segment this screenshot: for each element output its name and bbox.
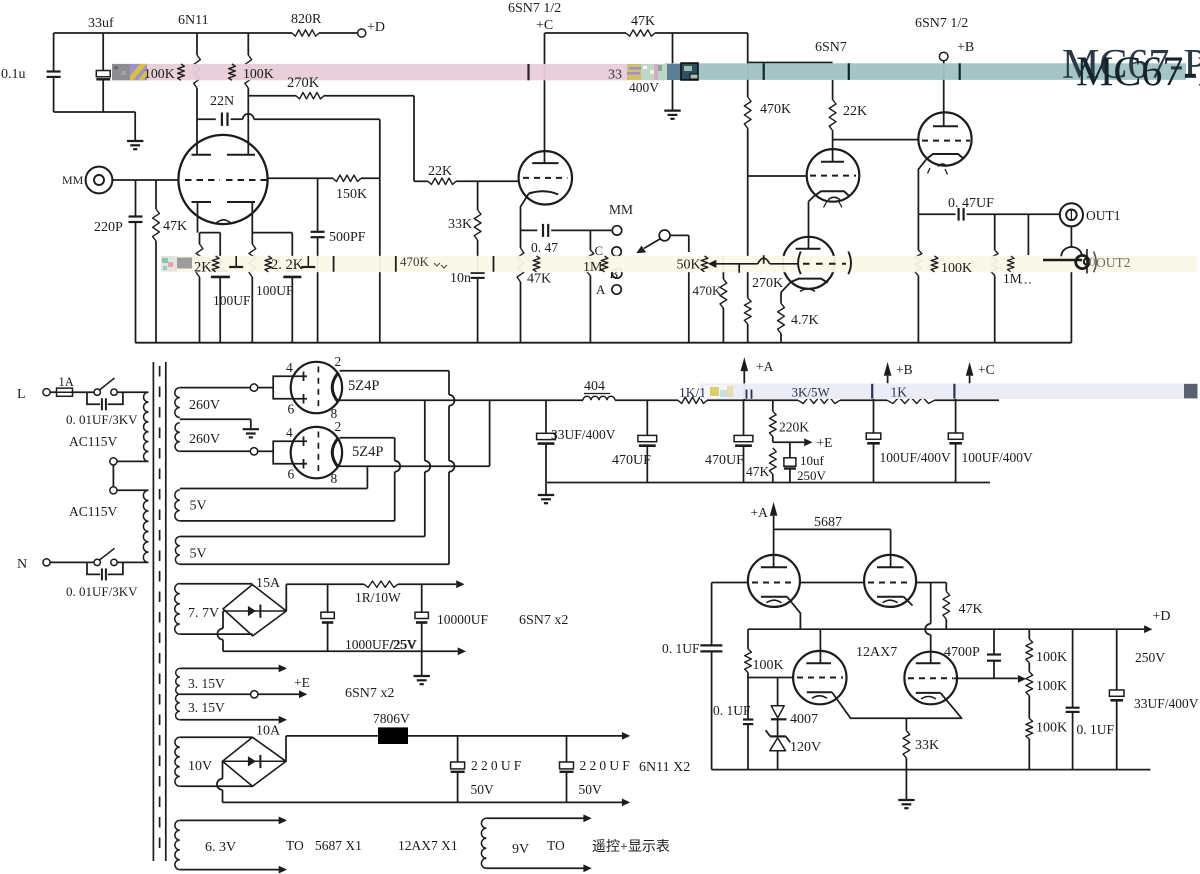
glitch shifted zigzag 2.2K: [265, 256, 272, 272]
switch rotor arrowhead: [636, 246, 646, 254]
svg-text:+A: +A: [751, 505, 769, 520]
terminal 6N11 heater plus arrow: [622, 732, 630, 740]
svg-text:15A: 15A: [256, 576, 281, 591]
wire 22N cap to hop: [231, 118, 243, 120]
wire pin8-2 up to B+ line: [489, 400, 491, 466]
terminal N: [43, 559, 50, 566]
svg-text:/25V: /25V: [390, 637, 417, 652]
svg-text:遥控+显示表: 遥控+显示表: [592, 839, 670, 855]
capacitor 22N: [221, 113, 223, 126]
V7 plate: [877, 566, 904, 568]
svg-text:2: 2: [335, 419, 342, 434]
wire cathode to 0.47UF cap: [918, 213, 955, 215]
svg-text:4700P: 4700P: [944, 645, 980, 660]
wire 5687 plate rail: [774, 528, 891, 530]
resistor 47K plate body: [626, 30, 655, 36]
svg-text:0.1u: 0.1u: [1, 67, 26, 82]
V1 heater arc: [216, 220, 232, 224]
svg-text:470UF: 470UF: [705, 453, 744, 468]
wire 500PF to ground rail: [317, 237, 319, 343]
wire +A stem lower: [773, 516, 775, 530]
svg-text:10V: 10V: [188, 759, 212, 774]
svg-text:100K: 100K: [753, 658, 784, 673]
glitch wire V3 grid line right part: [770, 263, 798, 265]
resistor 1K body: [887, 397, 935, 403]
V5 plate: [933, 125, 958, 127]
svg-text:3. 15V: 3. 15V: [188, 676, 225, 691]
wire cap to ground: [672, 75, 674, 110]
wire bridge 10A minus output with hop: [222, 761, 224, 779]
wire tap to primary 2: [117, 489, 149, 491]
wire tap link: [112, 465, 114, 487]
svg-text:50V: 50V: [471, 782, 495, 797]
svg-text:5V: 5V: [190, 499, 207, 514]
wire V7 grid node down to 12AX7-2 plate with hop: [930, 583, 932, 624]
V8 heater arc: [812, 696, 827, 699]
resistor 47K cathode follower: [517, 248, 524, 282]
connector MM input outer: [86, 167, 113, 194]
V6 heater arc: [767, 600, 782, 603]
glitch gray block left of pink band: [112, 64, 131, 80]
wire 150K to x380 vertical: [361, 177, 380, 179]
wire V1 right cathode lead: [251, 202, 253, 233]
svg-text:3. 15V: 3. 15V: [188, 700, 225, 715]
wire +C rail: [545, 32, 627, 34]
resistor 470K grid leak V3: [722, 256, 724, 279]
svg-text:470K: 470K: [760, 102, 791, 117]
svg-text:470UF: 470UF: [612, 453, 651, 468]
capacitor 470UF 1: [646, 400, 648, 435]
svg-text:100UF: 100UF: [213, 293, 251, 308]
wire cathode to 100UF cap2: [252, 232, 292, 234]
transformer secondary 7.7V: [175, 584, 180, 635]
rectifier U1 5Z4P envelope: [291, 362, 342, 413]
glitch shifted wire tick +B in teal band: [959, 63, 961, 80]
capacitor 10uf/250V: [789, 442, 791, 458]
glitch wire hop on V3 grid line: [758, 258, 770, 264]
terminal +B: [939, 52, 948, 61]
svg-text:7806V: 7806V: [373, 711, 410, 726]
capacitor 100UF/400V 2: [955, 399, 957, 433]
capacitor 33UF/400V filter: [545, 400, 547, 433]
wire hop x449 over pin8-2 line: [449, 461, 455, 472]
U1 pin 4 stub: [290, 375, 308, 377]
OUT1 center pin: [1070, 210, 1072, 221]
wire V5 cathode lead: [918, 159, 927, 215]
svg-text:6SN7 1/2: 6SN7 1/2: [915, 16, 968, 31]
switch N contact 1: [94, 559, 100, 565]
wire +E branch: [773, 441, 804, 443]
wire 5V-1 top line: [180, 488, 368, 490]
svg-text:0. 01UF/3KV: 0. 01UF/3KV: [66, 412, 138, 427]
wire center tap to arrow: [258, 693, 299, 695]
wire fuse to switch L: [73, 391, 95, 393]
svg-text:5V: 5V: [190, 547, 207, 562]
svg-text:5Z4P: 5Z4P: [352, 444, 383, 460]
wire 47K corner down x747.7: [747, 33, 749, 63]
resistor 33K tail: [905, 718, 907, 730]
terminal +A arrow: [741, 357, 749, 371]
resistor 100K (12AX7 grid feed): [747, 629, 749, 649]
glitch noise cluster at band junction: [627, 64, 641, 80]
triode V4 6SN7c envelope: [807, 149, 860, 202]
V5 heater pins: [928, 168, 931, 174]
glitch shifted tick x477: [493, 256, 495, 272]
glitch shifted tick x380: [395, 256, 397, 272]
ground 33K tail: [905, 770, 907, 799]
resistor 47K input load: [155, 180, 157, 209]
wire 6.3V top: [180, 819, 279, 821]
wire x449 vertical with hops: [448, 371, 450, 395]
wire rail to 33uf cap: [102, 33, 104, 71]
wire +C down to V2 plate: [544, 33, 546, 163]
svg-text:1K: 1K: [891, 385, 908, 400]
wire hop x424.8: [425, 461, 431, 472]
wire +D rail to V8 plate: [819, 629, 821, 663]
terminal +E center tap: [251, 691, 258, 698]
svg-text:A: A: [596, 282, 606, 297]
U2 filament bold arc: [332, 438, 338, 468]
svg-text:10A: 10A: [256, 724, 281, 739]
connector OUT1 outer: [1060, 203, 1083, 226]
glitch shifted zigzag 2K: [212, 256, 219, 272]
V9 plate: [916, 662, 941, 664]
svg-text:0. 47: 0. 47: [531, 240, 558, 255]
resistor 100K left (V1 plate load): [196, 33, 198, 55]
capacitor 470UF 2: [743, 400, 745, 435]
svg-text:22N: 22N: [210, 94, 234, 109]
zener diode 120V: [770, 735, 786, 737]
wire 260V-1 to rectifier 1: [180, 387, 251, 389]
svg-text:6SN7: 6SN7: [815, 40, 847, 55]
V9 heater arc: [921, 697, 936, 700]
svg-text:250V: 250V: [797, 468, 827, 483]
capacitor 4700P: [993, 629, 995, 654]
wire 270K to corner: [324, 95, 414, 97]
wire choke to 1K/10W: [615, 399, 678, 401]
triode V3 6SN7b envelope: [783, 237, 835, 289]
switch rotor arm: [644, 239, 660, 249]
terminal 6.3V top arrow: [279, 817, 287, 825]
resistor 22K body: [428, 178, 456, 184]
wire V1 output to 150K: [268, 177, 333, 179]
svg-text:TO: TO: [286, 838, 304, 853]
wire 7806 output bus: [408, 735, 622, 737]
svg-text:260V: 260V: [189, 432, 220, 447]
switch L contact 1: [94, 389, 100, 395]
capacitor 500PF: [311, 231, 325, 233]
glitch noise cluster yellow band left: [161, 256, 177, 272]
wire 22K to V2 grid: [456, 180, 519, 182]
diode inside bridge 10A: [248, 756, 256, 766]
capacitor 220UF/50V 1: [457, 736, 459, 762]
V8 plate: [806, 662, 831, 664]
wire cathode to 100UF cap1: [200, 232, 221, 234]
svg-text:1M: 1M: [1003, 271, 1022, 286]
svg-text:12AX7 X1: 12AX7 X1: [398, 838, 458, 853]
triode V8 12AX7a envelope: [793, 651, 846, 704]
inductor 404 choke: [583, 396, 615, 400]
wire node at 248.3,95.7 to 270K: [248, 95, 296, 97]
glitch gray block yellow band: [177, 258, 192, 269]
svg-text:1R/10W: 1R/10W: [355, 590, 401, 605]
wire V2 cathode lead: [521, 194, 529, 231]
transformer primary winding 1: [144, 392, 149, 461]
wire 1K to end: [935, 399, 1000, 401]
wire +A stem: [743, 371, 745, 400]
terminal +D: [358, 29, 366, 37]
resistor 22K (V4 plate feed): [832, 80, 834, 100]
transformer secondary 260V-2: [175, 423, 180, 452]
svg-text:+B: +B: [896, 362, 913, 377]
switch L blade: [100, 378, 115, 390]
glitch V3 envelope arc right: [848, 252, 851, 275]
svg-text:+D: +D: [367, 20, 385, 35]
wire 6N11 heater minus bus: [223, 801, 623, 803]
svg-text:+C: +C: [536, 18, 553, 33]
wire 4007 to zener: [777, 719, 779, 735]
rectifier U2 5Z4P envelope: [291, 427, 342, 478]
svg-text:0. 1UF: 0. 1UF: [713, 703, 751, 718]
transformer secondary 6.3V: [175, 820, 180, 869]
wire bridge 15A minus output with hop: [222, 611, 224, 629]
svg-text:100UF/400V: 100UF/400V: [962, 450, 1034, 465]
wire terminal to pin box 1: [258, 387, 274, 389]
V6 cathode: [761, 596, 787, 598]
ground center tap: [243, 428, 259, 430]
terminal tap 2: [110, 487, 117, 494]
resistor 33K: [477, 181, 479, 210]
svg-text:5687: 5687: [814, 515, 842, 530]
resistor 100K right (V1 plate load): [247, 33, 249, 55]
wire to V4 grid: [748, 175, 807, 177]
svg-text:6SN7 x2: 6SN7 x2: [519, 613, 568, 628]
capacitor 10n: [471, 272, 485, 274]
wire OUT1 to OUT2: [1070, 226, 1072, 246]
svg-text:47K: 47K: [631, 14, 655, 29]
wire primary tap upper: [117, 460, 149, 462]
wire 7.7V bottom to bridge: [180, 633, 253, 635]
svg-text:250V: 250V: [1135, 650, 1165, 665]
svg-text:1A: 1A: [59, 375, 74, 389]
wire hop x449 over B+ line: [449, 395, 455, 406]
svg-text:AC115V: AC115V: [69, 434, 118, 449]
wire 820R to +D terminal: [319, 32, 358, 34]
svg-text:150K: 150K: [336, 187, 367, 202]
wire bottom bus lower section: [712, 769, 1151, 771]
svg-text:L: L: [17, 387, 26, 402]
svg-text:50V: 50V: [579, 782, 603, 797]
switch rotor contact: [659, 230, 670, 241]
wire bridge 15A plus output: [285, 584, 287, 611]
V6 plate: [761, 566, 787, 568]
wire long vertical x380 to ground rail: [379, 119, 381, 343]
transformer secondary 10V: [175, 737, 180, 786]
svg-text:6SN7 x2: 6SN7 x2: [345, 686, 394, 701]
wire switch N to primary: [117, 561, 148, 563]
wire 0.1u cap to bottom: [53, 77, 55, 112]
wire U1 pin8 / B+ output line: [340, 399, 584, 401]
svg-text:10n: 10n: [450, 271, 471, 286]
transformer secondary 3.15V-1: [176, 668, 180, 694]
wire +B stem upper: [887, 376, 889, 384]
glitch shifted zigzag 50K: [701, 256, 708, 272]
terminal 6N11 heater minus arrow: [622, 799, 630, 807]
svg-text:50K: 50K: [677, 258, 701, 273]
resistor chain 100K x3: [1028, 629, 1030, 639]
glitch shifted cap top 1: [235, 256, 237, 267]
glitch shifted cap top 2: [307, 256, 309, 267]
capacitor 0.1UF grid: [743, 718, 753, 720]
fuse 1A: [57, 388, 73, 396]
V7 grid dashed: [868, 582, 912, 584]
svg-text:33: 33: [608, 68, 622, 83]
svg-text:47K: 47K: [163, 219, 187, 234]
svg-text:6. 3V: 6. 3V: [205, 840, 236, 855]
terminal +E arrow: [804, 438, 812, 446]
triode V2 6SN7a envelope: [519, 151, 572, 204]
capacitor 100UF cathode bypass 1: [219, 233, 221, 271]
resistor 1K/10W body: [678, 397, 707, 403]
svg-text:100UF: 100UF: [256, 283, 294, 298]
connector OUT1 inner: [1066, 210, 1077, 221]
wire zener to bottom bus: [777, 751, 779, 770]
terminal heater plus arrow: [456, 580, 464, 588]
pink highlight band: [112, 64, 666, 80]
wire cathode to 0.47 cap: [521, 229, 538, 231]
diode inside bridge 15A: [248, 606, 256, 616]
contact A: [612, 285, 621, 294]
U1 pin 6 stub: [290, 398, 308, 400]
glitch shifted tick +C stem: [953, 384, 955, 399]
U2 pin 6 stub: [290, 463, 308, 465]
svg-text:220P: 220P: [94, 220, 123, 235]
V3 cathode: [791, 279, 828, 283]
triode V5 6SN7d envelope: [918, 112, 971, 165]
wire common cathode tail: [832, 692, 962, 718]
wire +D rail left segment: [54, 32, 292, 34]
wire 3.15V bottom: [180, 719, 279, 721]
capacitor 220UF/50V 2: [566, 736, 568, 762]
wire rotor down (50K top): [688, 235, 690, 252]
svg-text:6N11 X2: 6N11 X2: [639, 760, 690, 775]
wire V1 left cathode lead: [197, 202, 199, 233]
capacitor 220P: [129, 215, 143, 217]
transformer core line right: [165, 362, 167, 861]
V3 heater arc: [800, 289, 815, 292]
svg-text:500PF: 500PF: [329, 230, 366, 245]
V7 heater arc: [883, 600, 898, 603]
bridge 15A internal line: [223, 610, 286, 612]
capacitor 0.47: [542, 224, 544, 237]
svg-text:8: 8: [331, 471, 338, 486]
switch N blade: [100, 548, 115, 560]
wire rail to 33uf/400V cap: [672, 33, 674, 64]
terminal L: [43, 389, 50, 396]
V7 cathode: [877, 596, 904, 598]
U2 dashed filament line: [317, 432, 319, 475]
V1 left grid dashed: [185, 179, 220, 181]
terminal 9V bottom arrow: [583, 864, 591, 872]
lavender highlight band: [700, 383, 1184, 399]
glitch shifted zigzag 1M output: [1007, 256, 1014, 272]
wire 6.3V bottom: [180, 869, 279, 871]
svg-text:C: C: [595, 243, 604, 258]
contact MM: [612, 226, 621, 235]
glitch shifted tick x317: [333, 256, 335, 272]
svg-text:+A: +A: [756, 359, 774, 374]
wire x394.7 vertical (5V-1 bottom): [394, 438, 396, 461]
connector MM input inner: [94, 175, 104, 185]
wire V9 grid output: [954, 677, 1018, 679]
wire 260V-2 to rectifier 2: [180, 450, 251, 452]
wire grid rail V6 to V7: [800, 582, 864, 584]
capacitor 0.1UF input: [711, 583, 713, 646]
svg-text:2: 2: [335, 354, 342, 369]
svg-text:0. 47UF: 0. 47UF: [948, 196, 994, 211]
wire 1K/10W to 3K/5W: [707, 399, 798, 401]
wire 220P to ground rail: [135, 222, 137, 343]
svg-text:47K: 47K: [746, 464, 770, 479]
wire B+ filter ground bus: [547, 482, 990, 484]
resistor 1M divider: [589, 230, 591, 250]
wire center tap to ground: [180, 418, 251, 420]
wire 1R/10W to arrow: [398, 583, 456, 585]
V4 plate: [821, 161, 844, 163]
wire 7.7V top to bridge apex: [180, 583, 253, 585]
V5 grid dashed: [922, 140, 970, 142]
glitch V3 envelope arc left: [798, 252, 801, 275]
terminal rectifier 2 plate: [250, 448, 257, 455]
U1 filament bold arc: [332, 373, 338, 403]
label 404 underline: [584, 393, 610, 395]
V5 heater arc: [938, 164, 947, 166]
glitch shifted resistor zigzag pink 2: [229, 64, 236, 80]
contact B: [612, 268, 622, 278]
capacitor 0.01UF/3KV across switch L: [87, 392, 100, 404]
svg-text:220K: 220K: [779, 420, 809, 435]
capacitor 10000UF: [421, 584, 423, 612]
wire OUT2 to ground rail: [1070, 272, 1072, 343]
svg-text:+C: +C: [978, 362, 995, 377]
wire input to 220P cap: [135, 180, 137, 217]
dark slate square at lavender band end: [1184, 384, 1198, 399]
svg-text:10uf: 10uf: [800, 453, 825, 468]
svg-text:2K: 2K: [194, 260, 212, 276]
svg-text:+B: +B: [957, 40, 974, 55]
V8 grid dashed: [797, 677, 843, 679]
wire U2 pin2 line: [340, 437, 395, 439]
wire 47K to corner: [655, 32, 748, 34]
svg-text:470K: 470K: [693, 283, 723, 298]
glitch wire V3 grid line left part: [716, 263, 757, 265]
wire bottom of input filter: [54, 111, 136, 113]
svg-text:3K/5W: 3K/5W: [792, 385, 831, 400]
V2 plate: [532, 162, 558, 164]
transformer secondary 3.15V-2: [176, 694, 180, 720]
svg-text:OUT2: OUT2: [1096, 255, 1131, 270]
glitch shifted zigzag 100K output: [931, 256, 938, 272]
svg-text:100K: 100K: [941, 261, 972, 276]
V9 grid dashed: [908, 677, 953, 679]
wire bridge 10A plus to 7806: [285, 736, 287, 761]
transformer secondary 5V-1: [175, 490, 180, 521]
yellow highlight band: [161, 256, 1197, 272]
triode V6 5687a envelope: [748, 555, 800, 607]
resistor 220K: [772, 400, 774, 411]
wire to 22K top: [748, 62, 833, 64]
V8 cathode: [807, 691, 832, 693]
